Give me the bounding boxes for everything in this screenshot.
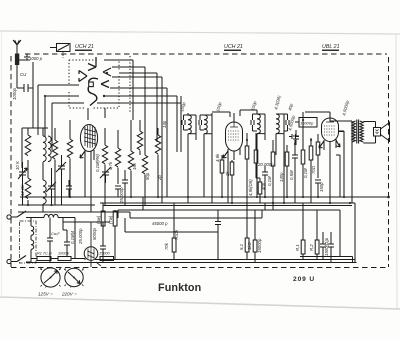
wire tuner top link [22, 88, 48, 168]
capacitor C9 [199, 115, 204, 130]
svg-text:R,1: R,1 [295, 244, 300, 251]
capacitor C16 [315, 180, 321, 197]
svg-text:b: b [82, 267, 84, 271]
output transformer T3 secondary winding [360, 121, 364, 142]
svg-text:20.000p: 20.000p [257, 162, 274, 167]
resistor R15 box [271, 140, 275, 210]
wire top bus 4 [112, 77, 162, 203]
svg-text:R1 7C.Ω: R1 7C.Ω [37, 252, 52, 256]
svg-text:100p: 100p [215, 101, 222, 112]
svg-text:Funkton: Funkton [158, 282, 201, 294]
svg-text:0,5M: 0,5M [289, 170, 294, 180]
filter choke coil a [31, 218, 34, 241]
svg-text:5000p: 5000p [92, 227, 97, 240]
svg-text:70Ω: 70Ω [311, 165, 316, 174]
capacitor C15 anode [289, 134, 299, 139]
filter choke coil b [31, 240, 34, 262]
wire V1 left cathode [45, 96, 79, 137]
wire tone loop [125, 218, 218, 232]
capacitor C17 [64, 242, 70, 256]
bus junction dots [69, 196, 351, 204]
bottom solid line inner [95, 259, 355, 261]
resistor R20 box horizontal [31, 257, 58, 261]
scan page right edge [396, 33, 397, 308]
mains terminal lower [7, 259, 11, 263]
svg-text:100Ωk: 100Ωk [58, 252, 70, 256]
rectifier V4 hatch [88, 247, 95, 260]
wire V3 screen [336, 131, 344, 197]
svg-text:50p: 50p [145, 172, 150, 180]
svg-text:(7w): (7w) [108, 215, 113, 224]
capacitor C19 [215, 210, 221, 260]
resistor R24 box vertical [172, 203, 176, 260]
tube V1 hexode grid arrow left [79, 71, 87, 82]
wire T3 secondary loop [363, 122, 375, 144]
resistor R7 [128, 120, 133, 197]
svg-text:0,1M|4: 0,1M|4 [70, 230, 75, 244]
tube V1 cathode arrow [80, 151, 85, 158]
wire T1 drops [188, 113, 212, 203]
chassis dashed border left [10, 56, 12, 267]
svg-text:4,5k(Ω6): 4,5k(Ω6) [248, 179, 253, 196]
capacitor C1 1000p [24, 62, 33, 92]
trimmer capacitor CT1 [18, 162, 27, 205]
scan page bottom edge [0, 297, 400, 309]
tube V1 anode hook [88, 78, 98, 105]
svg-text:a: a [64, 267, 66, 271]
wire V1 left grid to tuner [38, 85, 79, 135]
capacitor C6 [115, 186, 121, 197]
capacitor C5 [66, 180, 72, 197]
svg-text:16k: 16k [132, 162, 137, 170]
svg-text:(5w): (5w) [96, 215, 101, 224]
node dot bus right [387, 196, 390, 199]
resistor R29 box horizontal [100, 257, 114, 261]
tube V1 right grid arrows [101, 68, 111, 88]
capacitor C7 [122, 170, 128, 205]
mains terminal upper [7, 215, 11, 219]
resistor R14 box [258, 178, 262, 203]
resistor R21 box horizontal [58, 257, 85, 261]
capacitor C13 [262, 166, 268, 197]
wire T2 drops [212, 110, 284, 203]
svg-text:1000 p: 1000 p [29, 56, 43, 61]
svg-text:4,6k: 4,6k [215, 153, 220, 162]
heater bus wire [118, 210, 340, 256]
node dot tuner [27, 204, 29, 206]
wire antenna tap [17, 58, 27, 60]
resistor R13 box [245, 133, 249, 203]
svg-text:1kΩ: 1kΩ [247, 241, 252, 250]
tube V2 pins [228, 113, 240, 203]
junction dots midright [246, 119, 312, 204]
IF transformer T2 primary coil [257, 114, 265, 134]
IF transformer T1 primary coil [188, 115, 196, 134]
svg-text:40p: 40p [287, 102, 294, 111]
capacitor C8 [182, 115, 188, 130]
capacitor C11 [284, 114, 289, 131]
svg-text:2k: 2k [225, 171, 230, 177]
resistor R25 box vertical [245, 203, 249, 260]
wire x63 drop [63, 218, 67, 243]
svg-text:0,1M: 0,1M [303, 168, 308, 178]
svg-text:4,5000p: 4,5000p [341, 99, 350, 116]
bottom solid line outer [26, 262, 357, 264]
svg-text:15000p: 15000p [300, 121, 314, 126]
svg-text:0,1M(R6): 0,1M(R6) [95, 154, 100, 172]
IF transformer T1 secondary coil [204, 115, 212, 134]
svg-text:UCH 21: UCH 21 [224, 44, 243, 50]
wire tuner bottom bus [18, 205, 130, 212]
line filter dash-dot enclosure [20, 221, 37, 263]
speaker magnet [374, 128, 381, 137]
svg-text:1500(Ω)p: 1500(Ω)p [324, 237, 329, 256]
svg-text:70k: 70k [164, 242, 169, 250]
svg-text:UBL 21: UBL 21 [322, 44, 340, 50]
resistor R9 [137, 120, 142, 155]
svg-text:15000: 15000 [99, 252, 110, 256]
heater ballast bumps [44, 214, 75, 217]
node dot V1 pin [106, 72, 108, 74]
trimmer capacitor CT4 [100, 167, 111, 183]
svg-text:25.000p: 25.000p [119, 187, 124, 204]
capacitor C18 [100, 222, 106, 263]
resistor R12 box [230, 160, 234, 203]
resistor R10 [155, 128, 160, 197]
op tube V1 UCH21 dotted envelope [69, 60, 119, 108]
switch blade upper [11, 211, 31, 218]
coil L2a [43, 136, 46, 162]
tube V3 pins [305, 112, 336, 203]
tube V3 envelope [322, 118, 339, 142]
tube V2 envelope [226, 122, 243, 151]
chassis dashed border bottom [11, 267, 389, 269]
voltage selector dial A [41, 268, 61, 287]
svg-text:45000 p: 45000 p [152, 221, 168, 226]
svg-text:4,3(Ω6): 4,3(Ω6) [273, 94, 282, 110]
svg-text:R,2: R,2 [309, 244, 314, 251]
tube V1 cathode square [89, 82, 94, 87]
capacitor C2 [24, 55, 30, 61]
antenna coil L1 [15, 54, 19, 66]
dial indicator box [50, 44, 70, 52]
rectifier V4 leads [91, 222, 101, 267]
capacitor C14 [292, 140, 298, 203]
scan page top edge [0, 31, 400, 34]
scan page left edge [1, 31, 3, 297]
wire drop x188 [187, 197, 189, 203]
chassis dashed border right [388, 57, 390, 267]
wire rect top [63, 218, 110, 259]
wire top bus 6 [104, 96, 177, 152]
capacitor Cw [47, 236, 53, 262]
wire inner loop corner [300, 256, 353, 263]
svg-text:40p: 40p [261, 182, 266, 190]
wire antenna down [17, 65, 24, 88]
svg-text:0,1M: 0,1M [267, 176, 272, 186]
svg-text:25.000p: 25.000p [78, 228, 83, 245]
svg-text:2p: 2p [157, 175, 162, 181]
svg-text:10 K: 10 K [15, 160, 20, 170]
capacitor C20 [320, 232, 326, 260]
svg-text:a: a [40, 267, 42, 271]
wire drop x265 [264, 203, 266, 210]
tube label UCH21 first [75, 44, 94, 51]
svg-text:4,7k: 4,7k [108, 161, 113, 170]
AVC bus wire [130, 210, 262, 218]
resistor R11 box [220, 155, 224, 197]
tube V1 cathode hatch [84, 125, 96, 148]
svg-text:209 U: 209 U [293, 276, 315, 283]
tube V1 envelope [80, 125, 97, 152]
capacitor C10 [251, 114, 257, 131]
label box AF [295, 118, 317, 128]
antenna [13, 40, 21, 54]
resistor R23 box vertical [113, 210, 117, 260]
resistor R19 box [316, 134, 320, 178]
resistor R28 box vertical [315, 210, 319, 260]
svg-text:CU: CU [20, 72, 27, 77]
resistor R18 box [309, 138, 313, 203]
svg-text:b: b [59, 267, 61, 271]
svg-text:15000p: 15000p [257, 238, 262, 253]
wire drop x143 [142, 197, 144, 210]
coil L3a [43, 162, 46, 212]
switch blade lower [11, 256, 31, 263]
resistor R27 box vertical [301, 203, 305, 260]
voltage selector dial B [65, 268, 84, 286]
resistor R16 box [285, 145, 289, 197]
B+ bus wire [100, 203, 355, 262]
svg-text:4,5000p: 4,5000p [287, 114, 296, 131]
wire T3 to V3 anode [330, 114, 352, 203]
svg-text:150p: 150p [319, 182, 324, 192]
output transformer T3 core [357, 120, 359, 144]
tube label UBL21 [322, 44, 340, 51]
chassis dashed border top [25, 53, 387, 55]
resistor R5 [102, 128, 107, 205]
resistor R22 box vertical [101, 203, 105, 246]
resistor R8 [142, 125, 147, 205]
node dot V1 pin2 [103, 95, 105, 97]
coil L2b [48, 136, 51, 162]
wire mains top run [31, 217, 44, 219]
wire top bus 5 [110, 88, 167, 197]
output transformer T3 primary winding [352, 121, 356, 142]
wire top bus 3 [119, 73, 157, 142]
tube label UCH21 second [224, 44, 243, 51]
svg-text:5,1: 5,1 [239, 243, 244, 250]
svg-text:c: c [70, 285, 72, 289]
rectifier tube V4 envelope [84, 247, 98, 261]
node dot tuner2 [50, 204, 52, 206]
wire top bus 7 [97, 96, 181, 152]
svg-text:220V ~: 220V ~ [61, 292, 77, 297]
IF transformer T2 secondary coil [276, 114, 284, 134]
tube V2 cathode arrow [223, 151, 228, 158]
resistor R17 box [301, 112, 305, 197]
wire V1 left lower [52, 103, 84, 150]
tube V1 pins [85, 150, 94, 212]
tube V2 electrodes [228, 123, 240, 140]
resistor 10k [25, 135, 31, 156]
resistor R4 [67, 120, 72, 197]
B+ bus wire lower [103, 205, 352, 207]
trimmer capacitor CT3 [56, 155, 66, 205]
wire top bus 1 [104, 60, 133, 120]
resistor R2 [25, 160, 31, 205]
coupling capacitor C12 [293, 130, 299, 145]
wire x50 drop [49, 218, 51, 237]
svg-text:UCH 21: UCH 21 [75, 44, 94, 50]
resistor R26 box vertical [253, 210, 257, 263]
tube V3 electrodes [324, 118, 336, 135]
resistor R14b box [254, 133, 260, 178]
tube V1 triode grid arrow [88, 57, 96, 71]
capacitor C21 [328, 232, 334, 263]
wire top bus 2 [112, 67, 145, 125]
svg-text:140p: 140p [279, 172, 284, 182]
svg-text:Cw,F: Cw,F [51, 232, 60, 236]
node dot left [44, 95, 46, 97]
resistor R6 [115, 130, 120, 184]
svg-text:1000p: 1000p [12, 87, 17, 100]
wire grid cap riser [88, 108, 105, 120]
tuning gang dotted shaft [129, 56, 131, 112]
svg-text:c: c [45, 285, 47, 289]
svg-text:70Ωk: 70Ωk [174, 229, 179, 240]
speaker cone [381, 122, 390, 143]
resistor R3 [52, 128, 57, 205]
svg-text:12 Ωk: 12 Ωk [20, 184, 25, 196]
tube V3 pin arrows [319, 140, 340, 148]
dial cord dotted [62, 52, 64, 59]
svg-text:14p: 14p [162, 120, 167, 128]
svg-text:125V ~: 125V ~ [38, 292, 53, 297]
trimmer capacitor CT2 [46, 168, 56, 205]
ground bus wire [20, 196, 389, 198]
